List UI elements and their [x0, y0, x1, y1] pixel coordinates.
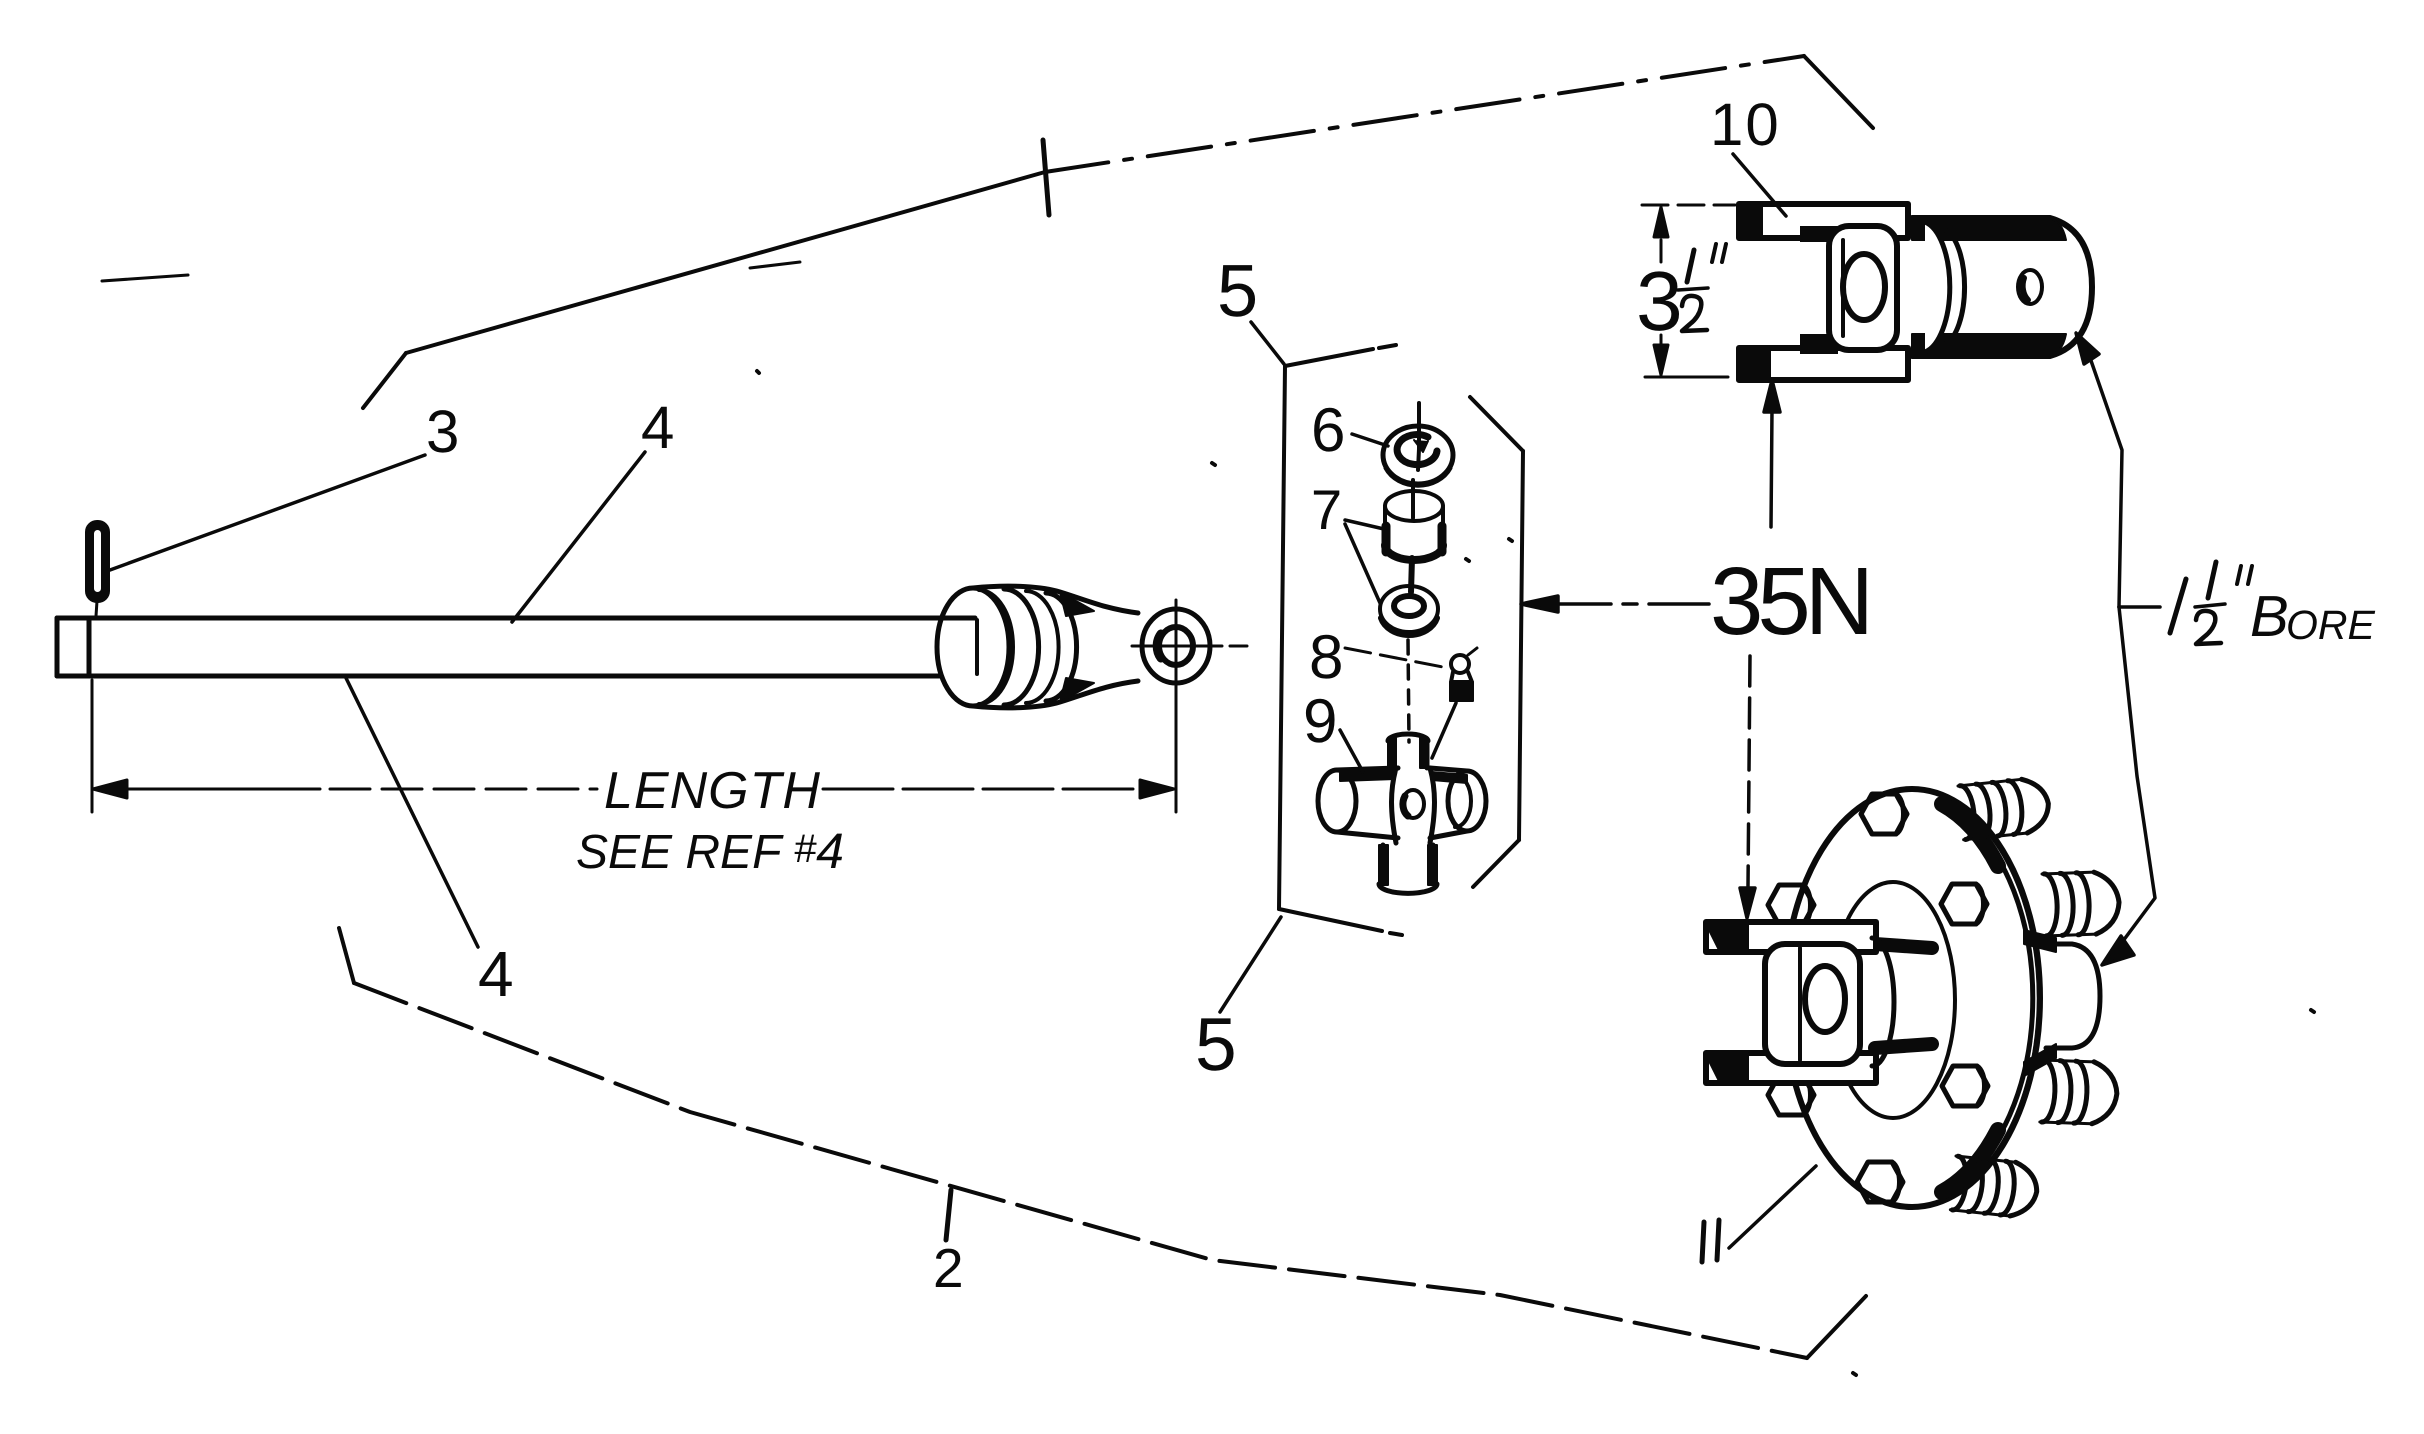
svg-text:8: 8	[1309, 623, 1343, 692]
threaded stud bottom	[1950, 1156, 2039, 1218]
hex bolt lower-left	[1768, 1075, 1814, 1115]
svg-text:3: 3	[1636, 254, 1683, 348]
slip yoke item 10	[1739, 204, 2092, 380]
universal joint cross item 9	[1318, 734, 1486, 893]
leader of 1 1/2" BORE to flange hub	[2102, 607, 2155, 965]
leader for label 9	[1340, 730, 1363, 772]
shading at ear/body junction	[1800, 226, 1838, 242]
grease fitting item 8	[1432, 648, 1477, 758]
svg-text:9: 9	[1303, 687, 1337, 756]
svg-text:LENGTH: LENGTH	[604, 762, 821, 820]
leader for label 8	[1345, 648, 1448, 668]
collar arcs	[1925, 222, 1950, 352]
35N arrow to panel (left)	[1521, 596, 1709, 612]
flange yoke collar	[1872, 938, 1894, 1066]
outline leader item 2 (bottom boundary line)	[339, 928, 1866, 1358]
inner boss ellipse	[1831, 882, 1955, 1118]
faint guide dashes top-left	[102, 275, 188, 281]
dimension 3 1/2 inch	[1642, 205, 1735, 377]
threaded stud lower-right	[2040, 1060, 2118, 1125]
flange yoke bottom ear	[1706, 1053, 1876, 1083]
bottom ear	[1739, 348, 1908, 380]
svg-text:5: 5	[1195, 1002, 1237, 1086]
leader for upper label 4	[512, 452, 645, 622]
threaded stud top	[1958, 777, 2051, 840]
coupling bell and yoke eye at shaft right end	[937, 586, 1210, 708]
LENGTH dimension	[92, 680, 1176, 812]
svg-text:7: 7	[1311, 478, 1342, 541]
flange yoke top ear	[1706, 922, 1876, 952]
top ear	[1739, 204, 1908, 238]
svg-text:B: B	[2250, 584, 2289, 649]
35N arrow to yoke item 10 (up)	[1764, 380, 1780, 527]
label 2	[946, 1190, 951, 1240]
svg-text:4: 4	[478, 938, 514, 1010]
leader for label 3	[110, 455, 425, 570]
flange coupler assembly item 11	[1706, 777, 2120, 1219]
leaders for label 7	[1345, 520, 1384, 529]
rear flange rim arcs	[1950, 800, 2039, 1196]
svg-text:SEE REF #4: SEE REF #4	[576, 823, 844, 879]
tube	[1912, 218, 2092, 356]
35N arrow to flange yoke (down)	[1740, 656, 1755, 918]
cotter pin item 3	[87, 522, 108, 616]
shaft item 4	[57, 618, 977, 676]
leader for label 6	[1352, 434, 1388, 446]
svg-text:5: 5	[1217, 249, 1258, 332]
leader of 1 1/2" BORE to tube end	[2076, 333, 2160, 607]
centerlines of yoke eye	[1132, 645, 1247, 648]
svg-text:ORE: ORE	[2286, 602, 2376, 648]
dark slivers between discs	[1942, 804, 1998, 866]
seal washer item 7	[1380, 586, 1438, 635]
small hole in tube	[2018, 270, 2042, 304]
panel plate item 5 outline	[1279, 345, 1523, 935]
stray specks	[757, 371, 2314, 1375]
hex bolt upper-right	[1941, 884, 1987, 924]
outline leader item 1 (top boundary line)	[363, 56, 1873, 408]
assembly centerline between washer and cross	[1408, 640, 1409, 742]
svg-text:2: 2	[933, 1237, 964, 1299]
hex bolt bottom	[1857, 1162, 1903, 1202]
front flange disc	[1784, 789, 2040, 1207]
flange yoke body	[1765, 944, 1860, 1064]
leader for top label 5	[1251, 322, 1284, 364]
hex bolt upper-left	[1768, 885, 1814, 925]
hex bolt lower-right	[1942, 1066, 1988, 1106]
leader for lower label 4	[346, 678, 478, 947]
leader for label 10	[1733, 154, 1786, 216]
svg-text:6: 6	[1311, 396, 1345, 465]
label 1 tick	[1043, 140, 1049, 215]
svg-text:3: 3	[426, 398, 459, 465]
hex bolt top	[1861, 794, 1907, 834]
svg-text:35N: 35N	[1710, 548, 1868, 655]
bearing cap item 6	[1383, 403, 1453, 485]
yoke body	[1829, 226, 1897, 350]
leader for label 11	[1729, 1166, 1816, 1248]
threaded stud upper-right	[2042, 871, 2120, 936]
svg-text:10: 10	[1710, 91, 1781, 158]
leader for bottom label 5	[1220, 917, 1281, 1012]
hub shaft shading	[1875, 944, 1932, 948]
bearing cup item 7 (cylinder)	[1385, 480, 1443, 592]
hub end bolt at right	[2046, 944, 2100, 1048]
label 1 1/2" BORE	[2170, 579, 2186, 633]
label 11	[1702, 1220, 1719, 1262]
